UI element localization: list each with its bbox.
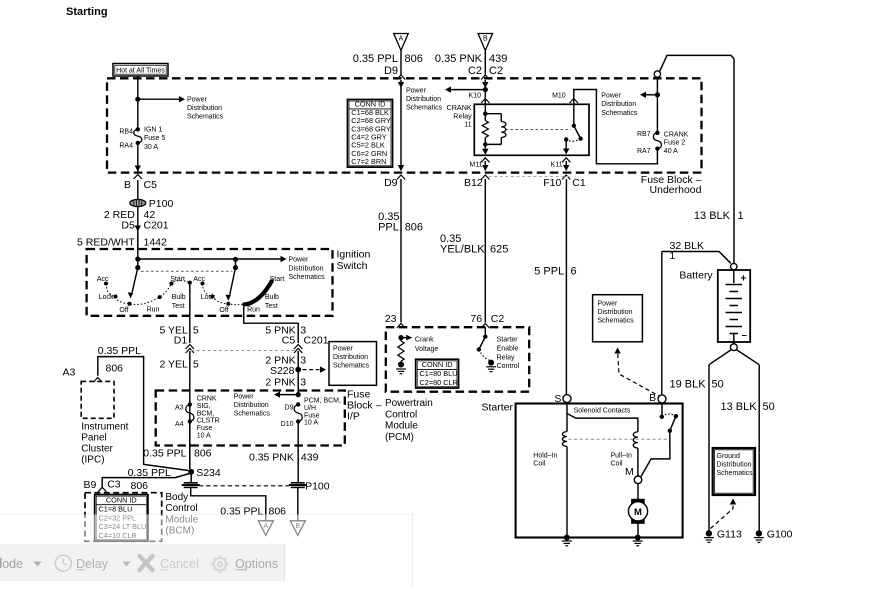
svg-text:M: M [634, 507, 642, 518]
svg-text:Distribution: Distribution [187, 105, 222, 112]
B contact wire [661, 403, 663, 417]
svg-text:M11: M11 [469, 162, 482, 169]
svg-text:S234: S234 [196, 467, 221, 479]
svg-text:Cluster: Cluster [81, 444, 113, 455]
instrument panel cluster dashed box [81, 381, 114, 418]
svg-text:D9: D9 [384, 177, 398, 189]
svg-text:Fuse 5: Fuse 5 [144, 135, 166, 142]
svg-text:Control: Control [497, 363, 520, 370]
svg-text:2 PNK: 2 PNK [265, 377, 295, 389]
svg-text:Starting: Starting [66, 6, 108, 18]
node circle battery feed [654, 71, 660, 77]
wire label 2 RED 42 [137, 207, 139, 249]
wire S234 to IPC pin A3 (0.35 PPL 806) [98, 357, 189, 471]
svg-text:Lock: Lock [99, 294, 114, 301]
fuse block IP dashed box [156, 391, 345, 446]
junction K10 branch [483, 87, 488, 92]
PCM dashed box [386, 327, 529, 392]
triangle ref A bottom [258, 521, 273, 536]
svg-text:3: 3 [300, 377, 306, 389]
svg-text:5: 5 [193, 359, 199, 371]
svg-text:3: 3 [300, 355, 306, 367]
toolbar [0, 544, 285, 581]
svg-text:A3: A3 [63, 366, 76, 378]
svg-text:C5: C5 [282, 335, 296, 347]
svg-text:CRNK: CRNK [197, 396, 217, 403]
svg-text:Control: Control [165, 503, 197, 514]
Power Distribution Schematics box (right) [593, 295, 643, 342]
ignition feed junction [135, 256, 140, 261]
svg-text:C2: C2 [468, 65, 482, 77]
svg-text:(IPC): (IPC) [81, 455, 104, 466]
svg-text:B9: B9 [83, 479, 96, 491]
svg-text:Crank: Crank [415, 337, 434, 344]
svg-text:Powertrain: Powertrain [385, 398, 433, 409]
wire F10 to starter S (5 PPL 6) [565, 179, 567, 395]
capture overlay [0, 514, 413, 588]
relay mechanical link dashed [506, 129, 572, 131]
relay switch output to K11 [565, 139, 567, 150]
svg-text:A3: A3 [175, 405, 184, 412]
svg-text:11: 11 [464, 120, 471, 129]
svg-text:P100: P100 [305, 481, 330, 493]
ignition wiper arrow left to OFF [132, 268, 138, 292]
svg-text:Fuse: Fuse [304, 412, 320, 419]
toolbar gear icon [214, 558, 226, 570]
relay coil branch [484, 104, 486, 113]
svg-text:Run: Run [247, 307, 260, 314]
svg-text:D9: D9 [285, 405, 294, 412]
svg-text:806: 806 [106, 363, 124, 375]
svg-text:Schematics: Schematics [333, 363, 370, 370]
svg-text:Schematics: Schematics [598, 318, 635, 325]
toolbar Node button (cut) [0, 558, 2, 568]
svg-text:Test: Test [172, 303, 185, 310]
svg-text:Instrument: Instrument [81, 422, 128, 433]
wire label 2 YEL 5 [189, 351, 191, 469]
triangle ref A top [394, 34, 409, 51]
ground G100 [756, 530, 762, 536]
svg-text:C2: C2 [489, 65, 503, 77]
svg-text:5 PPL: 5 PPL [534, 266, 564, 278]
PCM switch [484, 327, 486, 337]
svg-text:13 BLK: 13 BLK [721, 401, 758, 413]
junction RB7 branch [655, 92, 660, 97]
relay winding parallel [485, 113, 501, 115]
svg-text:D9: D9 [384, 65, 398, 77]
svg-text:76: 76 [470, 313, 482, 325]
svg-text:1: 1 [738, 210, 744, 222]
svg-text:Acc: Acc [97, 276, 109, 283]
svg-text:RB7: RB7 [637, 131, 651, 138]
svg-text:Delay: Delay [76, 557, 109, 571]
svg-text:C2: C2 [491, 313, 505, 325]
svg-text:625: 625 [490, 244, 508, 256]
ignition feed wire [137, 234, 139, 259]
svg-text:0.35 PNK: 0.35 PNK [435, 53, 483, 65]
svg-text:0.35 PPL: 0.35 PPL [143, 448, 186, 460]
svg-text:Schematics: Schematics [289, 274, 326, 281]
svg-text:Hold–In: Hold–In [533, 453, 557, 460]
svg-text:Underhood: Underhood [650, 184, 702, 196]
ignition mechanical link dashed [141, 270, 233, 272]
wire RB7 up to battery feed circle [656, 77, 658, 133]
svg-text:Distribution: Distribution [333, 354, 368, 361]
wire B node down to starter B terminal (19 BLK) [661, 252, 663, 395]
svg-text:RA4: RA4 [119, 142, 133, 149]
solenoid plunger dashed link [569, 438, 670, 440]
svg-text:Pull–In: Pull–In [611, 453, 633, 460]
arrow to Power Distribution Schematics (left of relay) [451, 89, 485, 91]
svg-text:A: A [399, 36, 404, 43]
dashed link to P100 [199, 485, 289, 487]
toolbar clock icon [55, 555, 71, 571]
svg-text:Distribution: Distribution [406, 96, 441, 103]
svg-text:K10: K10 [469, 92, 482, 99]
svg-text:Starter: Starter [497, 337, 519, 344]
svg-text:50: 50 [712, 379, 724, 391]
svg-text:RA7: RA7 [637, 148, 651, 155]
wire from Hot at All Times down to fuse IGN1 [137, 76, 139, 129]
svg-text:M: M [625, 466, 634, 478]
svg-text:Schematics: Schematics [187, 114, 224, 121]
svg-text:Hot at All Times: Hot at All Times [116, 67, 165, 74]
inline connector at BCM [184, 482, 198, 484]
svg-text:Power: Power [234, 394, 255, 401]
ignition right rotary contacts [201, 282, 205, 286]
svg-text:PPL: PPL [378, 222, 399, 234]
svg-text:Power: Power [406, 88, 427, 95]
ignition left rotary contacts [104, 282, 108, 286]
B switch wiper [670, 416, 676, 431]
wire 13 BLK 1 from feed circle to battery positive [660, 55, 735, 263]
svg-text:C201: C201 [304, 335, 329, 347]
svg-text:F10: F10 [543, 177, 561, 189]
svg-text:S: S [554, 393, 561, 405]
svg-text:Solenoid Contacts: Solenoid Contacts [574, 408, 631, 415]
motor feed wire [637, 484, 639, 500]
triangle ref B top [478, 34, 493, 51]
splice S234 [188, 469, 194, 475]
fuse IGN 1 Fuse 5 30A [134, 129, 142, 143]
S wire into solenoid [566, 403, 568, 432]
svg-text:Start: Start [170, 276, 185, 283]
svg-text:M10: M10 [552, 92, 566, 99]
ignition switch dashed box [87, 249, 333, 316]
svg-text:Power: Power [289, 257, 310, 264]
relay resistor [484, 114, 486, 121]
starter solid box [516, 404, 683, 538]
svg-text:Distribution: Distribution [601, 101, 636, 108]
svg-text:Schematics: Schematics [406, 105, 443, 112]
svg-text:13 BLK: 13 BLK [694, 210, 731, 222]
svg-text:Run: Run [147, 307, 160, 314]
Power Distribution Schematics box (mid) [329, 342, 377, 386]
ignition wiper pivot right [233, 257, 238, 262]
svg-text:Cancel: Cancel [160, 557, 199, 571]
svg-text:−: − [742, 331, 747, 341]
PCM crank voltage input [398, 335, 403, 340]
svg-text:Distribution: Distribution [598, 309, 633, 316]
fuse D9/D10 PCM BCM U/H fuse 10A [294, 405, 302, 422]
svg-text:Power: Power [187, 97, 208, 104]
svg-text:5: 5 [193, 325, 199, 337]
inline connector P100 lower [291, 482, 305, 484]
wire B12 to PCM 76 (0.35 YEL/BLK 625) [484, 179, 486, 323]
toolbar cancel X icon [140, 556, 153, 570]
connector crossing C201 right [294, 345, 302, 350]
wire K10 into crank relay [484, 80, 486, 104]
hold-in coil to ground [566, 446, 568, 537]
ground wire 13 BLK 50 to G100 [758, 365, 760, 531]
motor to ground [637, 521, 639, 538]
svg-text:806: 806 [131, 480, 149, 492]
pull-in coil to M node [637, 448, 639, 476]
ignition wiper pivot left [135, 265, 140, 270]
svg-text:Enable: Enable [497, 345, 519, 352]
C201 gray dashed boundary [191, 350, 297, 352]
starter motor [631, 499, 645, 524]
starter grounds [564, 535, 570, 541]
svg-text:CONN ID: CONN ID [106, 495, 137, 504]
arrow to Power Distribution Schematics (right) [646, 94, 657, 96]
svg-text:Distribution: Distribution [717, 462, 752, 469]
hold-in coil [562, 432, 567, 447]
svg-text:Off: Off [119, 307, 128, 314]
svg-text:+: + [741, 274, 747, 285]
svg-text:806: 806 [194, 448, 212, 460]
svg-text:1442: 1442 [144, 237, 168, 249]
svg-text:10 A: 10 A [304, 420, 318, 427]
svg-text:0.35 PNK: 0.35 PNK [249, 452, 294, 464]
battery negative split [709, 350, 732, 365]
svg-text:S228: S228 [270, 365, 295, 377]
svg-text:Ground: Ground [717, 453, 740, 460]
wire S234 to BCM pin B9 [102, 474, 189, 489]
wire from B contact to M [641, 431, 670, 477]
svg-text:Starter: Starter [481, 402, 513, 414]
wire D10 down to P100 (0.35 PNK 439) [297, 422, 299, 483]
svg-text:Schematics: Schematics [234, 411, 271, 418]
svg-text:Coil: Coil [611, 461, 624, 468]
svg-text:G113: G113 [717, 528, 742, 540]
svg-text:BCM,: BCM, [197, 410, 215, 417]
svg-text:Control: Control [385, 409, 417, 420]
wire BCM to triangle A bottom (0.35 PPL 806) [191, 488, 266, 521]
svg-text:Battery: Battery [679, 270, 713, 282]
svg-text:439: 439 [489, 53, 507, 65]
svg-text:Schematics: Schematics [601, 110, 638, 117]
svg-text:19 BLK: 19 BLK [670, 379, 707, 391]
svg-text:Acc: Acc [193, 276, 205, 283]
svg-text:B: B [483, 36, 488, 43]
svg-text:23: 23 [385, 313, 397, 325]
svg-text:C2=80 CLR: C2=80 CLR [420, 378, 458, 387]
svg-text:40 A: 40 A [664, 148, 678, 155]
svg-text:CRANK: CRANK [664, 131, 689, 138]
wire 2 PNK 3 upper [297, 351, 299, 395]
mid gray dashed boundary segment [489, 176, 573, 178]
ignition wiper arrow right to OFF [230, 268, 236, 295]
dashed arrow G113 to ground distribution box [711, 503, 734, 529]
wire triangle B to fuse block (0.35 PNK 439) [484, 51, 486, 76]
wire S234 down to BCM connector [190, 472, 192, 482]
svg-text:A4: A4 [175, 421, 184, 428]
PCM conn id table [416, 359, 459, 388]
svg-text:(PCM): (PCM) [385, 432, 414, 443]
svg-text:Schematics: Schematics [717, 470, 754, 477]
svg-text:I/P: I/P [347, 411, 360, 423]
svg-text:G100: G100 [767, 528, 793, 540]
svg-text:Bulb: Bulb [265, 294, 279, 301]
svg-text:806: 806 [405, 53, 423, 65]
svg-text:Coil: Coil [533, 461, 546, 468]
connector crossing C201 left [186, 345, 194, 350]
svg-text:439: 439 [301, 452, 319, 464]
Hot at All Times box [113, 64, 168, 77]
svg-text:Test: Test [265, 303, 278, 310]
svg-text:Relay: Relay [497, 354, 515, 361]
svg-text:Power: Power [333, 346, 354, 353]
wire C5 to P100 [137, 180, 139, 200]
arrow to Power Distribution Schematics (ignition) [138, 258, 281, 260]
dashed arrow from B wire to PDS box [618, 352, 662, 398]
pull-in coil [633, 432, 638, 448]
branch to pull-in coil [567, 414, 638, 432]
svg-text:U/H: U/H [304, 405, 316, 412]
svg-text:6: 6 [571, 266, 577, 278]
svg-text:Distribution: Distribution [289, 265, 324, 272]
svg-text:C201: C201 [144, 220, 169, 232]
fuse block underhood dashed enclosure [107, 78, 702, 172]
svg-text:Ignition: Ignition [337, 249, 371, 261]
svg-text:D5: D5 [121, 220, 135, 232]
ignition right RUN output wire 5 PNK [244, 304, 299, 343]
relay CRANK Relay 11 box [474, 104, 589, 155]
svg-text:B: B [124, 179, 131, 191]
svg-text:806: 806 [405, 222, 423, 234]
wire A through fuse block to D9 [400, 80, 402, 171]
ignition left START output wire 5 YEL [189, 283, 191, 343]
wire 32 BLK from B branch to battery plus [662, 252, 731, 264]
ignition START-RUN engaged thick arc [246, 281, 272, 304]
ground G113 [706, 530, 712, 536]
svg-text:Lock: Lock [201, 294, 216, 301]
svg-text:1: 1 [670, 250, 676, 262]
svg-text:0.35 PPL: 0.35 PPL [353, 53, 398, 65]
wire fuse IGN1 to connector C5 [137, 143, 139, 173]
connector P100 (inline oval) [130, 199, 146, 206]
svg-text:K11: K11 [551, 162, 563, 169]
svg-text:Fuse 2: Fuse 2 [664, 140, 686, 147]
svg-text:D1: D1 [174, 335, 188, 347]
svg-text:C1: C1 [572, 177, 586, 189]
svg-text:C1=8 BLU: C1=8 BLU [99, 504, 133, 513]
svg-text:CLSTR: CLSTR [197, 418, 220, 425]
svg-text:Bulb: Bulb [172, 294, 186, 301]
svg-text:Off: Off [219, 307, 228, 314]
svg-text:Distribution: Distribution [234, 402, 269, 409]
svg-text:Switch: Switch [337, 260, 368, 272]
wire triangle A to fuse block (0.35 PPL 806) [400, 51, 402, 76]
svg-text:IGN 1: IGN 1 [144, 126, 162, 133]
svg-text:Module: Module [385, 421, 418, 432]
svg-text:C5: C5 [144, 179, 158, 191]
PCM switch ground contact [488, 360, 494, 366]
svg-text:B12: B12 [464, 177, 483, 189]
svg-text:Voltage: Voltage [415, 346, 438, 353]
svg-text:C3: C3 [107, 478, 121, 490]
svg-text:RB4: RB4 [119, 129, 133, 136]
svg-text:ode: ode [2, 557, 23, 571]
svg-text:SIG,: SIG, [197, 403, 211, 410]
battery cell plates [726, 284, 743, 286]
svg-text:30 A: 30 A [144, 144, 158, 151]
svg-text:Options: Options [235, 557, 278, 571]
relay switch from M10 [573, 104, 575, 125]
svg-text:YEL/BLK: YEL/BLK [440, 244, 485, 256]
svg-text:5 RED/WHT: 5 RED/WHT [77, 237, 135, 249]
svg-text:10 A: 10 A [197, 433, 211, 440]
svg-text:B: B [649, 392, 656, 404]
svg-text:C1=80 BLU: C1=80 BLU [420, 369, 458, 378]
PCM internal ground [398, 362, 404, 368]
BCM conn id table [95, 495, 148, 541]
svg-text:C7=2 BRN: C7=2 BRN [351, 157, 386, 166]
fuse A3/A4 CRNK SIG fuse 10A [186, 405, 194, 422]
fuse block conn id table [348, 100, 393, 168]
dashed arrow S228 to Power Distribution Schematics box [303, 369, 320, 371]
wire D9 to PCM pin 23 (0.35 PPL 806) [400, 179, 402, 323]
svg-text:Panel: Panel [81, 433, 107, 444]
svg-text:2 YEL: 2 YEL [159, 359, 188, 371]
arrow to Power Distribution Schematics (top left) [138, 98, 179, 100]
relay coil output M11 [484, 144, 486, 150]
svg-text:Power: Power [601, 93, 622, 100]
svg-text:Power: Power [598, 301, 619, 308]
fuse CRANK Fuse 2 40A [653, 133, 661, 149]
svg-text:D10: D10 [281, 421, 294, 428]
ground distribution schematics box [713, 448, 755, 495]
wire A4 down to S234 (0.35 PPL 806) [189, 422, 191, 470]
svg-text:Fuse: Fuse [197, 425, 213, 432]
wire P100 to triangle B bottom [297, 488, 299, 521]
triangle ref B bottom [290, 521, 305, 536]
ground wire 19 BLK 50 to G113 [708, 365, 710, 531]
junction on IGN1 feed [135, 97, 140, 102]
svg-text:50: 50 [763, 401, 775, 413]
svg-text:CONN ID: CONN ID [422, 360, 453, 369]
B switch dotted travel [662, 414, 676, 417]
svg-text:PCM, BCM,: PCM, BCM, [304, 398, 341, 405]
PCM internal resistor [400, 338, 402, 341]
svg-text:Body: Body [165, 492, 188, 503]
BCM dashed box [85, 493, 162, 542]
svg-text:0.35 PPL: 0.35 PPL [98, 345, 141, 357]
